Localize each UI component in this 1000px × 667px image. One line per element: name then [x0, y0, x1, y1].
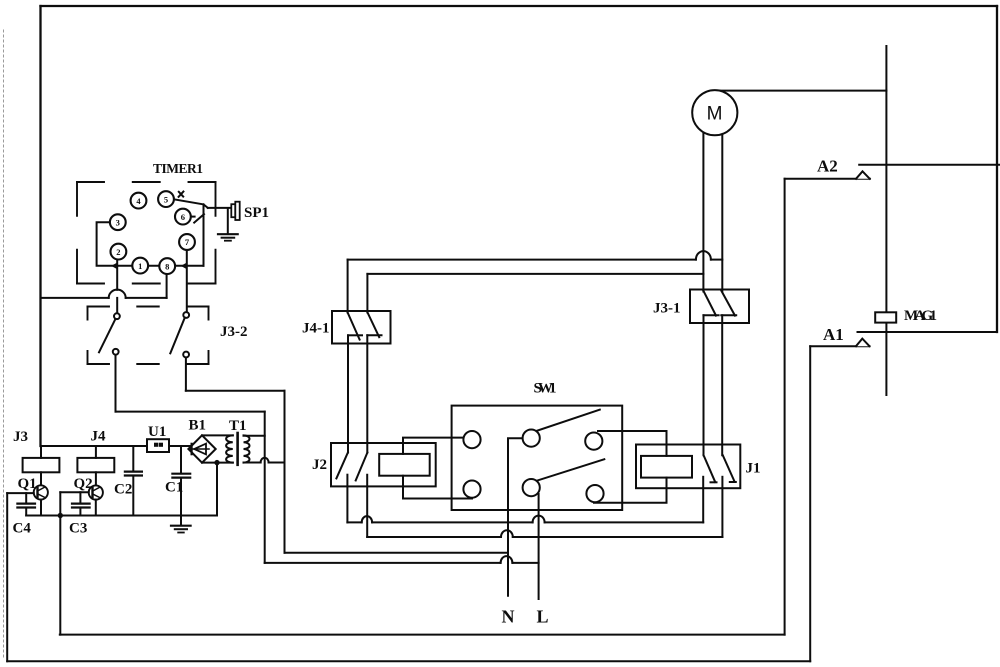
svg-text:A1: A1: [823, 325, 844, 344]
wire motor left lead: [702, 130, 704, 292]
relay contact J1: [636, 445, 740, 489]
wire J4-1 right leg to J2: [366, 335, 368, 452]
wire J3-2 left leg stub: [115, 355, 117, 412]
node junction dot rail: [58, 513, 63, 518]
timer pin 6: [175, 209, 191, 225]
wire T1 secondary bottom lead with hop: [244, 458, 285, 463]
svg-text:C2: C2: [114, 482, 132, 498]
wire J3 coil stem top: [40, 446, 42, 458]
scan artifact left edge: [3, 30, 5, 660]
wire Q2 base: [60, 491, 88, 493]
svg-text:B1: B1: [189, 418, 207, 434]
wire J1-J2 line2 with hop: [367, 530, 722, 537]
timer pin6 contact: [191, 214, 204, 222]
svg-text:J1: J1: [746, 461, 761, 477]
wire motor right lead: [721, 132, 723, 292]
wire timer pin3 loop: [97, 222, 204, 266]
capacitor C2: [125, 446, 142, 516]
wire J3-2 right leg horizontal: [186, 390, 285, 392]
svg-text:3: 3: [116, 217, 120, 227]
wire Q1 base: [7, 492, 34, 494]
wire J2 coil bottom to SW1: [403, 476, 472, 499]
wire vertical to N: [284, 391, 286, 553]
wire timer pivot vertical: [203, 205, 205, 266]
wire bottom rail: [26, 515, 217, 517]
wire MAG1 vertical: [885, 46, 887, 395]
wire N feed line3: [285, 552, 509, 554]
wire T1 primary bottom to rail: [216, 463, 218, 516]
bridge rectifier B1: [188, 435, 215, 462]
svg-text:MAG1: MAG1: [904, 308, 937, 324]
svg-text:J4-1: J4-1: [302, 321, 330, 337]
relay contact J3-2 dashed box: [88, 307, 209, 365]
wire J1-J2 line1 with hops: [347, 516, 703, 523]
wire J4-1 right contact feed horizontal: [367, 273, 703, 275]
relay contact J3-1: [690, 290, 749, 324]
wire L feed line4 with hop: [265, 556, 539, 563]
relay contact J2: [331, 443, 436, 486]
timer pin 1: [132, 258, 148, 274]
svg-text:C4: C4: [13, 521, 32, 537]
wire J4-1 right contact feed vertical: [366, 274, 368, 313]
wire L from SW1 bottom-middle: [538, 494, 540, 599]
wire J2 left contact stub: [346, 475, 348, 523]
transformer T1: [202, 433, 250, 465]
svg-text:J3-1: J3-1: [653, 301, 681, 317]
timer pin 7: [179, 234, 195, 250]
wire left border to pin8 with hop: [41, 290, 167, 298]
svg-text:6: 6: [181, 212, 185, 222]
node arrow junction pin7: [181, 262, 188, 269]
wire J3 coil to Q1: [40, 472, 42, 485]
wire J4-1 left contact feed vertical: [347, 260, 349, 313]
wire A1 top line: [858, 331, 998, 333]
wire J4-1 left contact feed horizontal with hop: [348, 251, 723, 260]
svg-text:J3-2: J3-2: [220, 324, 248, 340]
switch SW1: [452, 406, 623, 510]
wire left vertical to A1 return: [6, 493, 8, 661]
svg-text:2: 2: [116, 247, 120, 257]
magnetizer MAG1: [875, 312, 896, 322]
wire J4 coil stem top: [95, 446, 97, 458]
svg-text:N: N: [502, 607, 515, 627]
wire right border: [996, 6, 998, 332]
svg-text:M: M: [707, 104, 723, 125]
wire Q2 base vertical to A2 return: [59, 492, 61, 634]
J3-2 right switch: [170, 312, 189, 357]
svg-text:A2: A2: [817, 157, 838, 176]
svg-text:C1: C1: [165, 480, 183, 496]
timer switch blade: [174, 192, 208, 208]
svg-text:SP1: SP1: [244, 205, 269, 221]
wire timer pin8 stem: [166, 274, 168, 298]
wire J1 left contact stub: [702, 477, 704, 523]
relay contact J4-1: [332, 311, 391, 344]
timer TIMER1 dashed box: [77, 182, 216, 284]
wire J3-2 right leg stub: [185, 357, 187, 391]
wire J4 coil to Q2: [95, 472, 97, 485]
wire J1 coil top to SW1: [598, 431, 667, 456]
node A2 arrow: [856, 171, 870, 179]
wire motor top: [714, 90, 886, 92]
capacitor C4: [17, 493, 35, 515]
capacitor C3: [72, 492, 90, 515]
wire J3-1 right leg to J1: [721, 315, 723, 455]
svg-text:1: 1: [138, 261, 142, 271]
timer pin 8: [159, 258, 175, 274]
ground under SP1: [218, 209, 238, 241]
relay coil J3: [23, 458, 60, 472]
wire J3-1 left leg to J1: [703, 315, 705, 455]
wire A1 stub: [810, 345, 869, 347]
J3-2 left switch: [99, 313, 120, 354]
svg-text:U1: U1: [148, 424, 166, 440]
svg-text:L: L: [537, 607, 549, 627]
node junction dot T1: [214, 460, 219, 465]
wire DC rail: [41, 445, 148, 447]
motor M: [692, 90, 737, 135]
wire A2 line: [859, 164, 999, 166]
timer pin 4: [131, 193, 147, 209]
wire top border: [41, 5, 998, 7]
relay coil J2: [379, 454, 430, 476]
wire pin2 stem to J3-2 with hop: [116, 266, 118, 314]
wire A2 vertical: [784, 179, 786, 635]
wire A1 bottom return: [7, 660, 810, 662]
wire A2 stub: [785, 178, 870, 180]
wire SW1 top-middle to N: [508, 438, 524, 596]
wire Q2 emitter: [95, 500, 97, 516]
svg-text:TIMER1: TIMER1: [153, 161, 203, 176]
relay coil J1: [641, 456, 692, 478]
wire timer pin7 stem to J3-2: [186, 250, 188, 312]
transistor Q2: [89, 485, 103, 499]
relay coil J4: [77, 458, 114, 472]
wire J2 right contact stub: [366, 475, 368, 537]
svg-text:SW1: SW1: [534, 381, 557, 397]
wire J3-2 left leg horizontal: [116, 411, 265, 413]
regulator U1: [147, 439, 169, 452]
wire T1 secondary top lead: [244, 435, 265, 437]
svg-text:J3: J3: [13, 429, 28, 445]
wire Q1 emitter: [40, 500, 42, 516]
wire A2 bottom return: [60, 634, 785, 636]
svg-text:J4: J4: [91, 429, 107, 445]
wire U1 to B1: [169, 445, 190, 447]
svg-text:8: 8: [165, 261, 169, 271]
svg-text:Q2: Q2: [74, 476, 93, 492]
svg-text:5: 5: [164, 194, 168, 204]
node A1 arrow: [856, 339, 870, 347]
timer pin 2: [111, 244, 127, 260]
ground under C1: [171, 516, 191, 533]
node arrow junction pin2: [111, 262, 118, 269]
svg-text:T1: T1: [229, 418, 247, 434]
wire left border: [39, 6, 41, 446]
timer pin 3: [110, 214, 126, 230]
wire J1 right contact stub: [721, 477, 723, 537]
wire J2 coil top to SW1: [403, 438, 466, 454]
transistor Q1: [34, 485, 48, 499]
switch SW1 terminals: [463, 430, 603, 503]
wire timer pin2 stem: [116, 259, 118, 266]
wire A1 vertical: [809, 346, 811, 661]
wire J4-1 left leg to J2: [347, 335, 349, 452]
capacitor C1: [172, 446, 190, 516]
svg-text:C3: C3: [69, 521, 87, 537]
svg-text:Q1: Q1: [18, 476, 37, 492]
wire J1 coil bottom to SW1: [594, 478, 667, 503]
timer pin 5: [158, 191, 174, 207]
wire to SP1: [208, 207, 231, 209]
svg-text:J2: J2: [312, 457, 327, 473]
speaker SP1: [231, 202, 239, 220]
wire vertical to L: [264, 412, 266, 563]
